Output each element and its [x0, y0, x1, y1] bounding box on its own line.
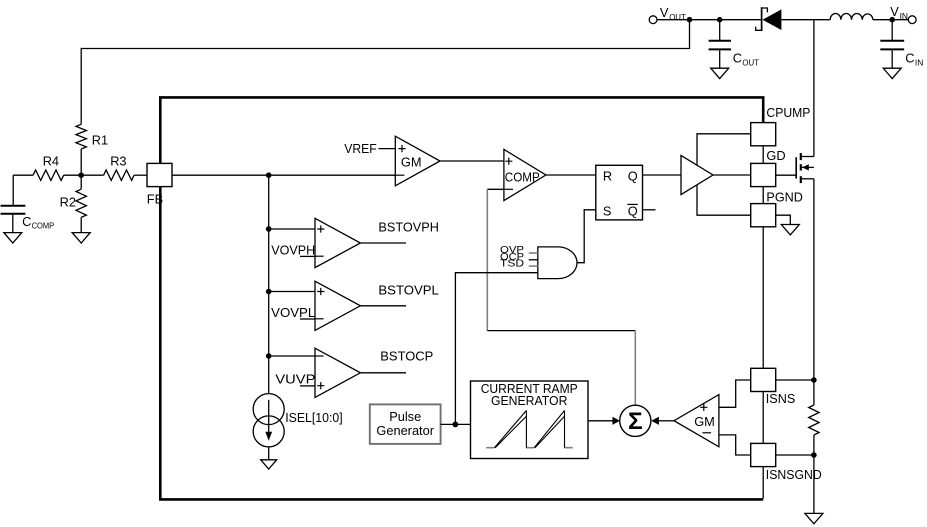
- svg-text:Σ: Σ: [628, 408, 643, 435]
- resistor R2: [60, 175, 87, 232]
- node feedback tap junction: [687, 17, 693, 23]
- wire GM minus to ISNSGND: [719, 435, 751, 455]
- resistor R1: [76, 124, 86, 149]
- ground at sense resistor: [805, 513, 823, 523]
- pin GD: [751, 163, 776, 186]
- svg-text:ISEL[10:0]: ISEL[10:0]: [285, 410, 343, 425]
- op-amp GM current sense amplifier: [674, 395, 719, 447]
- svg-text:V: V: [660, 5, 669, 20]
- wire BSTOVPL output: [360, 305, 406, 307]
- op-amp COMP PWM comparator: [504, 149, 546, 200]
- node COUT junction: [717, 17, 723, 23]
- wire GM output to summer: [659, 420, 674, 422]
- node VOVPH junction: [266, 226, 272, 232]
- pin FB: [147, 163, 172, 186]
- svg-text:ISNS: ISNS: [766, 391, 796, 406]
- comparator VOVPH: [269, 218, 361, 267]
- block Current Ramp Generator: [471, 381, 589, 459]
- wire ramp output to summer: [588, 420, 613, 422]
- wire source down to sense: [813, 179, 815, 380]
- wire GM plus to ISNS: [719, 380, 751, 407]
- block Pulse Generator: [370, 404, 441, 444]
- svg-text:GD: GD: [766, 148, 785, 163]
- svg-text:VOVPL: VOVPL: [271, 305, 315, 320]
- wire OCP stub: [529, 259, 538, 261]
- resistor RSNS: [809, 380, 819, 455]
- wire sense node to ground: [813, 455, 815, 513]
- svg-text:BSTOCP: BSTOCP: [380, 349, 433, 364]
- wire feedback from VOUT down-left to R1: [81, 20, 689, 125]
- node CIN junction: [889, 17, 895, 23]
- node VOVPL junction: [266, 289, 272, 295]
- svg-text:S: S: [603, 204, 612, 219]
- wire VREF stub: [379, 148, 396, 150]
- IC body border U1: [160, 97, 763, 499]
- wire PGND to ground: [776, 215, 791, 224]
- capacitor COUT: [709, 20, 731, 68]
- pin PGND: [751, 204, 776, 227]
- svg-text:PGND: PGND: [766, 190, 803, 205]
- node VUVP junction: [266, 353, 272, 359]
- wire driver output to GD: [713, 174, 751, 176]
- capacitor CCOMP: [1, 175, 26, 232]
- svg-text:TSD: TSD: [500, 258, 524, 269]
- capacitor CIN: [880, 20, 904, 68]
- comparator VOVPL: [269, 281, 361, 330]
- svg-text:GM: GM: [401, 155, 422, 170]
- svg-text:V: V: [890, 4, 899, 19]
- pin ISNS: [751, 368, 776, 391]
- buffer gate driver: [681, 155, 713, 194]
- svg-text:IN: IN: [900, 11, 908, 21]
- wire comparator branch vertical: [268, 175, 270, 394]
- ground under ISEL: [261, 460, 277, 469]
- svg-text:CPUMP: CPUMP: [766, 105, 810, 120]
- wire OVP stub: [529, 252, 538, 254]
- svg-text:Q: Q: [628, 204, 638, 219]
- svg-text:R1: R1: [92, 132, 108, 147]
- wire pulse generator to AND input: [455, 273, 537, 425]
- svg-text:GENERATOR: GENERATOR: [491, 393, 568, 408]
- diode D1 schottky: [756, 7, 782, 31]
- svg-text:Pulse: Pulse: [389, 409, 421, 424]
- wire right border pin chain segments: [762, 146, 764, 499]
- op-amp GM error amplifier: [395, 136, 440, 186]
- wire drain to switch node: [813, 20, 815, 157]
- ground at PGND: [781, 225, 799, 235]
- svg-text:C: C: [733, 51, 742, 66]
- wire FB internal row: [172, 174, 395, 176]
- svg-text:R4: R4: [43, 154, 59, 169]
- wire driver supply from CPUMP: [697, 134, 751, 165]
- wire Q to gate driver: [643, 174, 682, 176]
- wire Qbar stub: [643, 209, 656, 211]
- node FB divider junction: [78, 172, 84, 178]
- pin ISNSGND: [751, 443, 776, 466]
- svg-text:FB: FB: [147, 191, 163, 206]
- current source ISEL: [253, 394, 284, 460]
- svg-text:GM: GM: [694, 414, 715, 429]
- flip-flop RS latch: [596, 165, 643, 220]
- node comparator branch junction: [266, 172, 272, 178]
- inductor L1: [830, 14, 873, 20]
- wire AND output to S input: [577, 210, 596, 263]
- wire ISNSGND to sense node: [776, 454, 814, 456]
- svg-text:C: C: [22, 214, 31, 229]
- wire pulse generator output: [441, 423, 471, 425]
- wire COMP minus feedback path: [487, 188, 504, 190]
- svg-text:Generator: Generator: [376, 423, 434, 438]
- svg-text:Q: Q: [628, 169, 638, 184]
- svg-text:VOVPH: VOVPH: [271, 242, 315, 257]
- ground under R2: [72, 233, 90, 243]
- wire GM output to COMP: [440, 160, 504, 162]
- gate AND protection logic: [538, 247, 577, 279]
- ground under CIN: [883, 68, 901, 78]
- wire TSD stub: [529, 265, 538, 267]
- node ISNS junction: [811, 377, 817, 383]
- svg-text:VUVP: VUVP: [275, 372, 315, 387]
- wire ISNS to sense node: [776, 379, 814, 381]
- pin CPUMP: [751, 123, 776, 146]
- svg-text:C: C: [905, 51, 914, 66]
- transistor Q1 power NMOS: [776, 153, 814, 183]
- svg-text:R: R: [603, 169, 612, 184]
- svg-text:IN: IN: [915, 58, 923, 68]
- comparator VUVP: [269, 348, 361, 397]
- svg-text:VREF: VREF: [344, 141, 377, 156]
- wire inductor to VIN: [873, 19, 908, 21]
- ground under CCOMP: [4, 233, 22, 243]
- summing node sigma: [620, 405, 651, 436]
- node VIN terminal: [908, 16, 916, 24]
- svg-text:R3: R3: [110, 154, 126, 169]
- svg-text:BSTOVPH: BSTOVPH: [378, 220, 439, 235]
- wire BSTOCP output: [360, 372, 406, 374]
- wire driver return to PGND: [697, 185, 751, 215]
- node VOUT terminal: [649, 16, 657, 24]
- svg-text:BSTOVPL: BSTOVPL: [378, 282, 439, 297]
- node ISNSGND junction: [811, 452, 817, 458]
- resistor R3: [81, 154, 147, 181]
- svg-text:COMP: COMP: [505, 169, 540, 184]
- wire VOUT rail to diode cathode: [657, 19, 761, 21]
- wire diode anode to inductor: [781, 19, 830, 21]
- resistor R4: [13, 154, 81, 181]
- wire COMP output to R: [546, 174, 596, 176]
- ground under COUT: [711, 68, 729, 78]
- node pulse generator junction: [453, 422, 459, 428]
- svg-text:R2: R2: [60, 195, 76, 210]
- svg-text:OUT: OUT: [742, 58, 759, 68]
- wire BSTOVPH output: [360, 242, 406, 244]
- svg-text:COMP: COMP: [32, 221, 55, 231]
